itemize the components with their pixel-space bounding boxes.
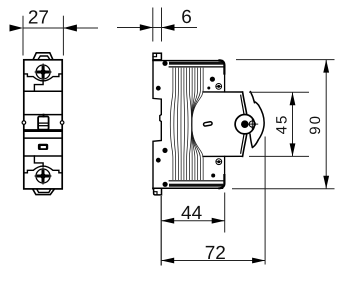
screw phillips cross [37,66,49,78]
dim 45 extension line top [249,91,309,93]
pivot center dot [241,120,249,128]
svg-text:27: 27 [28,8,49,29]
flange back profile upper [153,60,161,189]
window slot [41,146,46,148]
toggle band top line [24,114,62,116]
ringed rivet lower right [216,159,222,165]
arrow 44 left [161,218,174,224]
svg-text:44: 44 [181,203,203,224]
rib 1 [170,68,173,180]
top cap strip [169,62,223,65]
arrow 90 bottom [323,176,329,189]
top rail clip [153,53,161,60]
centre mark on lever [246,118,258,130]
bottom rail clip [154,189,162,195]
top face line [169,66,223,68]
svg-text:6: 6 [181,7,192,28]
visor top ledge [203,91,242,93]
dim 72 line [161,260,265,262]
svg-text:72: 72 [205,243,226,264]
rib 11 [192,68,201,180]
arrow 44 right [212,218,225,224]
bottom cap right corner [220,175,225,188]
rib 7 [189,68,191,180]
dim 6 line right tail [162,27,198,29]
left side notch [22,121,26,125]
dot flange upper [156,86,161,91]
dim 6 line left tail [117,27,153,29]
screw phillips cross [37,170,49,182]
body front edge upper [224,74,226,92]
visor bottom ledge [203,155,242,157]
rib 2 [174,68,176,180]
top cap right corner [220,60,225,73]
paddle chevron [255,102,258,105]
dim 44 extension line right [224,193,226,233]
front view body outline [24,60,62,189]
dim 44 72 extension line left [160,196,162,266]
dot hexagon mid left [162,148,167,153]
toggle handle stem [43,115,45,117]
label plate top line [24,130,62,132]
top rail clip notch [153,53,157,57]
dim 44 line [161,220,225,222]
bottom section divider [24,155,62,157]
rib 10 [192,68,198,180]
dim 90 extension line bottom [232,188,335,190]
rib 8 [191,68,193,180]
screw outer ring [36,169,50,183]
dot flange lower [156,158,161,163]
body front edge lower [224,156,226,175]
ribs on side cover [170,68,203,180]
arrow 45 bottom [290,143,296,156]
top DIN clip tab inner [38,56,49,59]
lever pivot [235,115,254,134]
arrow 45 top [290,92,296,105]
dim 6 extension line right [161,8,163,42]
screw crosshair ticks [35,64,52,81]
dim 45 line [292,92,294,156]
top section divider [24,90,62,92]
top terminal contour [24,74,62,81]
visor front inner arc [241,95,245,153]
toggle handle grip line 2 [39,125,49,127]
body top edge [153,60,223,62]
right side notch [60,121,64,125]
svg-text:45: 45 [274,114,291,135]
dot bottom band left [163,182,168,187]
arrow 6 left [140,24,153,30]
arrow 27 right [63,25,77,32]
dot upper right small [207,87,210,90]
arrow 72 left [161,258,174,264]
arrow 6 right [162,24,175,30]
rib 3 [177,68,178,180]
ringed rivet upper right [216,84,222,90]
dot top band left [162,61,167,66]
dim 6 extension line left [152,8,154,42]
top DIN clip tab outer [33,53,52,59]
body bottom edge [153,187,223,189]
bottom terminal contour [24,166,62,173]
dim 27 extension line left [22,16,24,56]
oval slot on visor side [203,121,212,126]
bottom DIN tab inner [37,190,51,193]
arrow 90 top [323,60,329,73]
window frame [38,144,48,150]
rivet dots on side view [156,61,215,187]
visor front outer arc [243,92,248,156]
bottom face line [169,180,223,182]
paddle top edge [250,92,254,103]
svg-text:90: 90 [307,114,324,135]
lever paddle [250,92,264,148]
arrow 27 left [10,25,24,32]
top terminal screw [35,64,52,81]
dim 90 line [325,60,327,189]
rib 12 [192,68,203,180]
dim 27 line [23,27,63,29]
rib 4 [180,68,182,180]
screw outer ring [36,65,50,79]
screw crosshair ticks [35,168,52,185]
toggle band bottom line [24,129,62,131]
paddle outer arc [258,105,264,140]
bottom rail clip notch [154,192,157,195]
pivot outer circle [235,115,254,134]
toggle handle grip line 1 [39,122,49,124]
top terminal step [34,81,43,91]
rib 5 [183,68,186,180]
bottom DIN tab outer [33,190,54,195]
dim 6 line [153,27,162,29]
bottom cap strip [169,184,223,187]
dot upper right big [210,77,215,82]
label plate bottom line [24,137,62,139]
paddle lower blade outer [252,140,258,148]
arrow 72 right [252,258,265,264]
bottom terminal step [34,156,43,167]
paddle lower blade inner [250,134,252,148]
dim 72 extension line right [264,137,266,265]
dim 45 extension line bottom [249,155,309,157]
dim 27 line right tail [63,27,98,29]
dot lower right mid [211,174,215,178]
rib 9 [192,68,195,180]
toggle handle [38,117,49,130]
bottom terminal screw [35,168,52,185]
dim 27 extension line right [62,16,64,56]
rib 6 [187,68,188,180]
viewing window on front [38,144,48,150]
dim 90 extension line top [236,59,335,61]
